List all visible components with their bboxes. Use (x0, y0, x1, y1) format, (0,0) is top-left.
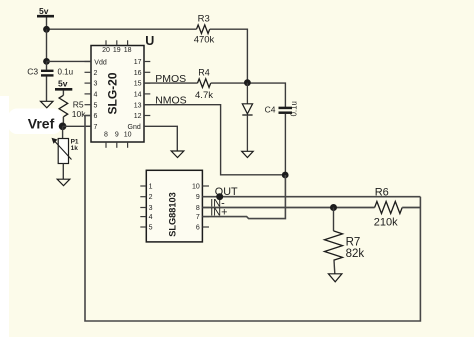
svg-text:C3: C3 (27, 67, 38, 77)
svg-text:4.7k: 4.7k (195, 90, 213, 101)
svg-text:8: 8 (196, 205, 200, 212)
svg-text:16: 16 (134, 70, 142, 77)
ground (below diode) (242, 151, 254, 157)
svg-text:3: 3 (94, 81, 98, 88)
power 5v supply symbol (above R5) (55, 79, 72, 96)
svg-text:7: 7 (196, 214, 200, 221)
wire: R5 to Vref node (62, 117, 64, 127)
svg-text:10: 10 (124, 132, 132, 139)
svg-text:14: 14 (134, 92, 142, 99)
capacitor C3 0.1u (27, 61, 73, 101)
wire NMOS: U1 pin 13 to C4 bottom node (144, 105, 285, 175)
svg-text:13: 13 (134, 102, 142, 109)
svg-text:5v: 5v (58, 79, 68, 89)
ground (below P1) (57, 179, 70, 186)
ground (U1 Gnd) (171, 151, 184, 158)
svg-text:Vdd: Vdd (94, 59, 107, 66)
svg-text:U: U (145, 34, 154, 48)
svg-text:10k: 10k (72, 109, 86, 119)
svg-text:6: 6 (94, 113, 98, 120)
svg-text:NMOS: NMOS (155, 95, 187, 107)
svg-text:PMOS: PMOS (155, 73, 186, 85)
resistor R7 82k (325, 208, 365, 274)
node junction dot (IN-/R7) (330, 204, 337, 211)
svg-text:Vref: Vref (28, 115, 55, 131)
svg-text:6: 6 (196, 225, 200, 232)
op-amp chip U2 SLG88103 (140, 170, 209, 242)
svg-text:0.1u: 0.1u (58, 68, 74, 77)
svg-text:470k: 470k (194, 35, 215, 46)
svg-text:R5: R5 (73, 99, 84, 109)
svg-text:4: 4 (94, 92, 98, 99)
wire: Vref node to U1 pin 7 (63, 125, 91, 127)
svg-text:3: 3 (149, 205, 153, 212)
resistor R6 210k (374, 187, 402, 229)
svg-text:R4: R4 (198, 67, 210, 77)
capacitor C4 0.1u (265, 101, 299, 175)
svg-text:8: 8 (104, 132, 108, 139)
svg-text:R6: R6 (375, 187, 389, 199)
node dot on OUT (216, 193, 223, 200)
wire PMOS: U1 pin 15 to R4 (144, 82, 198, 84)
svg-text:19: 19 (113, 47, 121, 54)
node junction dot (Vdd/C3) (43, 58, 50, 65)
svg-text:Gnd: Gnd (128, 124, 141, 131)
wire: R6 to right rail (402, 207, 420, 209)
svg-text:1: 1 (149, 184, 153, 191)
wire: R4 to C4 top corner (211, 83, 286, 107)
node junction dot (5v rail) (43, 26, 50, 33)
svg-text:2: 2 (94, 70, 98, 77)
wire IN-: U2 pin 8 to R6 (202, 207, 374, 209)
svg-text:210k: 210k (374, 216, 398, 228)
svg-text:18: 18 (124, 47, 132, 54)
wire: 5v node to R3 (47, 28, 197, 30)
svg-text:12: 12 (134, 113, 142, 120)
svg-text:82k: 82k (346, 248, 365, 260)
svg-text:0.1u: 0.1u (290, 101, 299, 116)
ground (below R7) (328, 274, 342, 282)
svg-text:7: 7 (94, 124, 98, 131)
svg-text:IN+: IN+ (210, 207, 227, 219)
wire OUT: U2 pin 9 to right rail (202, 196, 420, 198)
svg-text:5v: 5v (39, 6, 49, 16)
svg-text:5: 5 (149, 225, 153, 232)
svg-text:15: 15 (134, 81, 142, 88)
wire: R3 to PMOS node (210, 29, 248, 82)
svg-text:10: 10 (192, 184, 200, 191)
svg-text:9: 9 (196, 194, 200, 201)
wire: feedback loop OUT to U1 pin 6 (right rail, bottom rail, left rail) (85, 116, 420, 322)
svg-text:1k: 1k (71, 145, 79, 152)
wire: node to U1 pin 1 Vdd (47, 60, 92, 62)
svg-text:5: 5 (94, 102, 98, 109)
svg-text:9: 9 (115, 132, 119, 139)
svg-text:2: 2 (149, 194, 153, 201)
svg-text:C4: C4 (265, 105, 276, 115)
svg-text:17: 17 (134, 59, 142, 66)
svg-text:4: 4 (149, 214, 153, 221)
wire IN+: U2 pin 7 to C4 bottom node (202, 175, 285, 219)
svg-text:20: 20 (102, 47, 110, 54)
wire: 5v node down to C3/Vdd node (46, 29, 48, 61)
resistor R5 10k (59, 95, 86, 119)
node Vref (8, 109, 66, 135)
svg-text:SLG88103: SLG88103 (168, 192, 178, 236)
op-amp chip U1 SLG-20 (85, 34, 155, 148)
diode D1 to ground (242, 83, 252, 152)
node junction dot (C4/NMOS/IN+) (282, 172, 289, 179)
potentiometer P1 1k (52, 126, 79, 179)
resistor R4 4.7k (195, 67, 213, 101)
ground (below C3) (41, 101, 54, 108)
power 5v supply symbol (top left) (37, 6, 54, 29)
svg-text:SLG-20: SLG-20 (106, 72, 120, 114)
wire: U1 Gnd pin to ground (144, 126, 177, 151)
svg-text:R3: R3 (198, 14, 210, 25)
node junction dot (R3/R4/diode/C4) (244, 79, 251, 86)
resistor R3 (194, 14, 215, 46)
svg-text:R7: R7 (346, 237, 361, 249)
